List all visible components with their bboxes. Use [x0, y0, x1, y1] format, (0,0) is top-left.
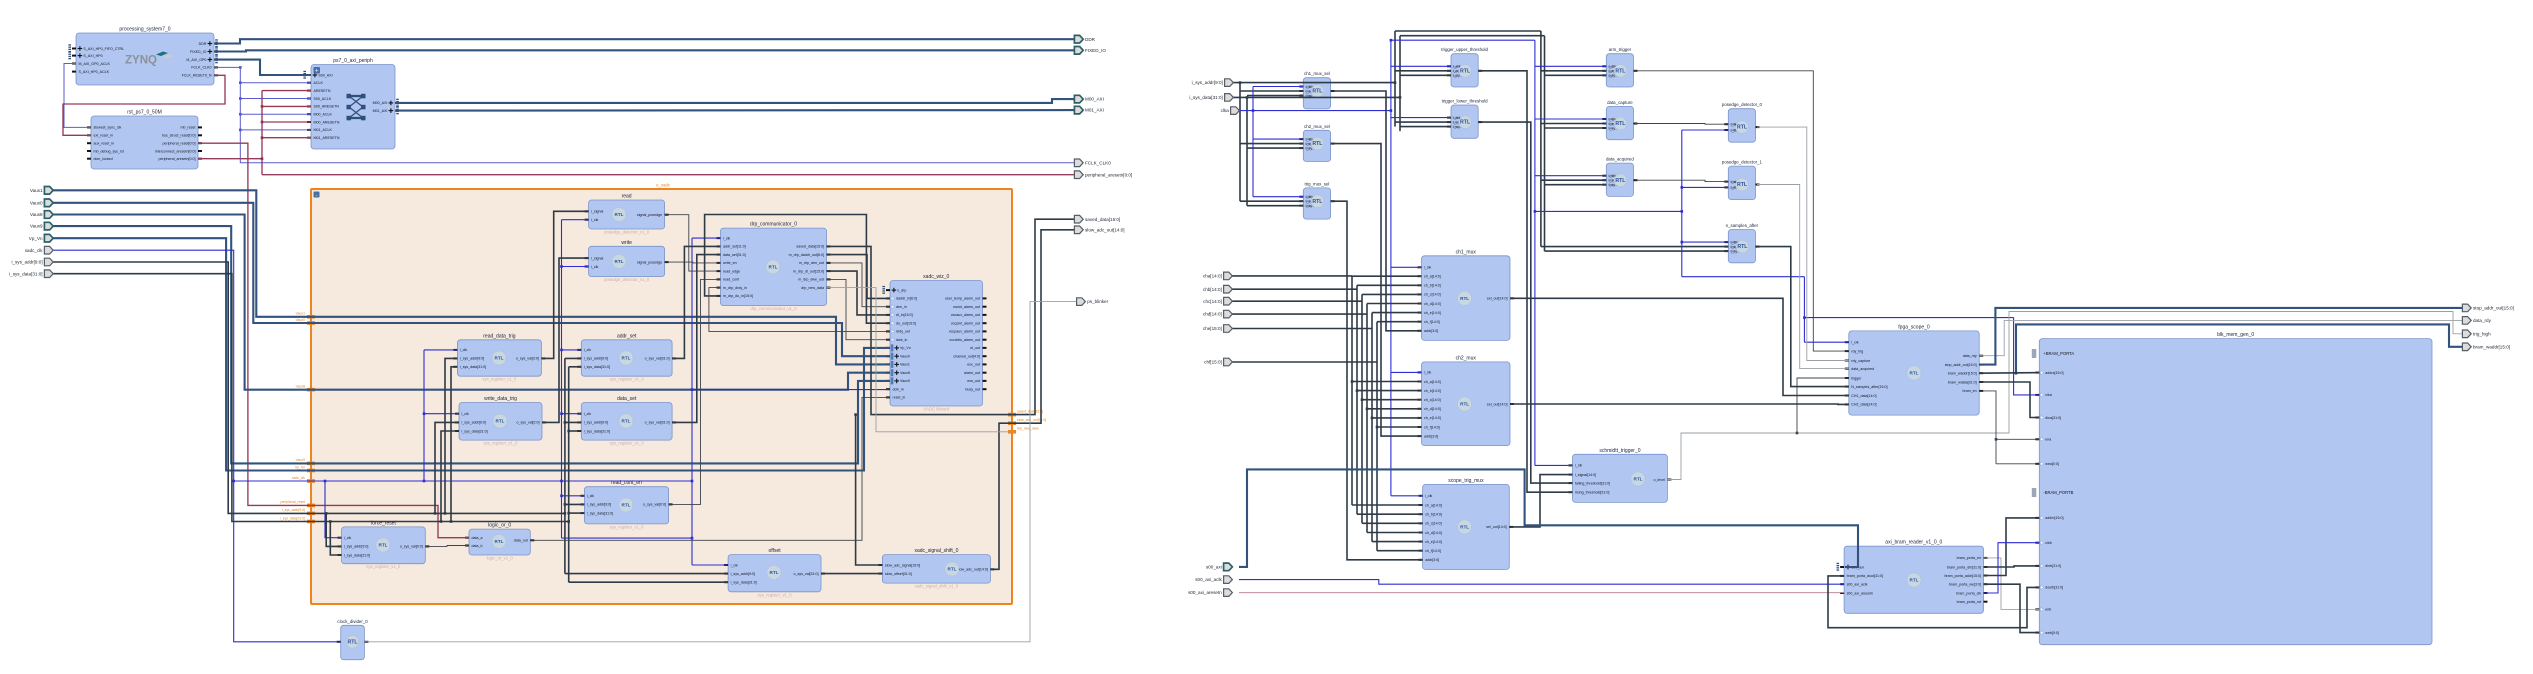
hierarchy group o_xadc — [311, 183, 1012, 605]
svg-text:addr_set: addr_set — [617, 333, 637, 339]
svg-text:ena: ena — [2045, 438, 2051, 442]
svg-text:trig_mux_sel: trig_mux_sel — [1305, 181, 1330, 186]
external port ps_blinker — [1077, 298, 1109, 306]
svg-text:data_b: data_b — [472, 544, 483, 548]
svg-text:peripheral_aresetn[0:0]: peripheral_aresetn[0:0] — [1085, 172, 1132, 177]
svg-text:data_set[31:0]: data_set[31:0] — [723, 253, 746, 257]
svg-text:i_clk: i_clk — [1730, 240, 1736, 244]
block rst_ps7_0_50M — [87, 110, 202, 170]
wire cha vert — [1351, 276, 1353, 505]
svg-text:RTL: RTL — [615, 259, 624, 264]
wire tut out — [1478, 71, 1572, 492]
svg-text:RTL: RTL — [1460, 525, 1469, 530]
svg-text:M00_AXI: M00_AXI — [1085, 97, 1104, 102]
svg-text:schmidtt_trigger_0: schmidtt_trigger_0 — [1599, 448, 1640, 454]
block read_data_trig — [453, 333, 545, 381]
wire offset to shift — [821, 573, 882, 575]
wire clka fpga — [1804, 341, 1848, 343]
wire clk rdt — [424, 349, 457, 351]
svg-text:xadc_signal_shift_0: xadc_signal_shift_0 — [914, 548, 958, 554]
svg-text:ch_c[14:0]: ch_c[14:0] — [1424, 398, 1441, 402]
svg-text:ext_reset_in: ext_reset_in — [94, 134, 114, 138]
wire clk reg vert561 — [561, 220, 563, 538]
svg-text:+BRAM_PORTA: +BRAM_PORTA — [2043, 351, 2074, 356]
wire clk data_set — [562, 413, 582, 415]
svg-text:dcm_locked: dcm_locked — [94, 157, 113, 161]
wire saved to shift — [856, 415, 883, 565]
block data_capture — [1602, 100, 1637, 140]
svg-text:CH2_data[14:0]: CH2_data[14:0] — [1851, 403, 1876, 407]
svg-text:ch1_mux_sel: ch1_mux_sel — [1304, 71, 1330, 76]
svg-text:busy_out: busy_out — [965, 388, 980, 392]
svg-text:RTL: RTL — [948, 567, 957, 572]
svg-text:FCLK_CLK0: FCLK_CLK0 — [191, 66, 211, 70]
wire clk row538 — [562, 537, 693, 539]
svg-text:signal_posedge: signal_posedge — [637, 213, 662, 217]
svg-text:i_clk: i_clk — [587, 494, 595, 498]
svg-text:enb: enb — [2045, 608, 2051, 612]
wire fpga wdata — [1979, 382, 2039, 418]
svg-text:reset_in: reset_in — [893, 396, 906, 400]
svg-text:bram_en: bram_en — [1963, 389, 1977, 393]
svg-text:RTL: RTL — [622, 419, 631, 424]
svg-text:stop_addr_out[15:0]: stop_addr_out[15:0] — [2473, 306, 2514, 311]
svg-text:i_sig..: i_sig.. — [1730, 122, 1737, 126]
svg-text:ch_c[14:0]: ch_c[14:0] — [1424, 293, 1441, 297]
external port saved_data[15:0] — [1074, 215, 1120, 223]
wire M_AXI_GP0 to S00_AXI — [214, 60, 311, 75]
svg-text:addra[15:0]: addra[15:0] — [2045, 371, 2063, 375]
svg-text:RTL: RTL — [1910, 578, 1919, 583]
svg-text:den_in: den_in — [896, 305, 907, 309]
svg-text:rdy_capture: rdy_capture — [1851, 359, 1870, 363]
external port Vp_Vn — [29, 234, 53, 242]
svg-text:eos_out: eos_out — [967, 379, 980, 383]
wire pd1 out — [1757, 185, 1849, 369]
block xadc_wiz_0 — [882, 274, 986, 412]
svg-text:RTL: RTL — [615, 212, 624, 217]
wire Vaux9 — [52, 226, 890, 463]
svg-text:i_sy..: i_sy.. — [1730, 245, 1737, 249]
svg-text:i_sy..: i_sy.. — [1305, 146, 1312, 150]
wire periph_aresetn vert2 — [261, 159, 263, 175]
svg-text:clock_divider_0: clock_divider_0 — [337, 619, 368, 624]
wire che vert — [1371, 313, 1373, 542]
wire r addr vert1395 — [1394, 31, 1396, 127]
external port trig_high — [2462, 330, 2491, 338]
block write — [585, 240, 669, 282]
svg-text:M_AXI_GP0: M_AXI_GP0 — [186, 58, 206, 62]
block arm_trigger — [1602, 47, 1637, 87]
block clock_divider_0 — [337, 619, 369, 660]
svg-text:di_in[15:0]: di_in[15:0] — [896, 313, 913, 317]
svg-text:i_sys_addr[9:0]: i_sys_addr[9:0] — [1192, 80, 1223, 85]
svg-text:M01_AXI: M01_AXI — [1085, 108, 1104, 113]
wire drp di — [827, 271, 890, 315]
svg-text:i_sys_data[31:0]: i_sys_data[31:0] — [280, 516, 305, 520]
wire xadc_clk entry — [52, 250, 692, 481]
block ch2_mux_sel — [1299, 124, 1334, 162]
svg-text:dina[31:0]: dina[31:0] — [2045, 416, 2061, 420]
svg-text:o_sys_val[31:0]: o_sys_val[31:0] — [645, 421, 670, 425]
wire s00_axi_aclk — [1239, 580, 1844, 585]
svg-text:RTL: RTL — [1460, 120, 1471, 126]
svg-text:ARESETN: ARESETN — [314, 89, 331, 93]
wire clka cap — [1535, 118, 1606, 120]
svg-text:i_sy..: i_sy.. — [1452, 73, 1459, 77]
wire che ch2 — [1372, 417, 1422, 419]
wire clka main — [1239, 110, 1391, 112]
svg-text:trigger: trigger — [1851, 376, 1862, 380]
wire chf port — [1232, 361, 1377, 363]
wire chc ch2 — [1362, 399, 1422, 401]
svg-text:o_sys_val[3:0]: o_sys_val[3:0] — [516, 357, 539, 361]
svg-text:do_out[15:0]: do_out[15:0] — [896, 322, 916, 326]
wire clka arm — [1535, 65, 1606, 67]
svg-text:i_clk: i_clk — [460, 348, 468, 352]
wire clk reg vert424 — [423, 350, 425, 481]
wire chd scope — [1367, 532, 1423, 534]
wire ch2 sel_out — [1510, 403, 1849, 405]
wire clka ch1sel — [1253, 86, 1303, 88]
svg-text:i_sy..: i_sy.. — [1305, 89, 1312, 93]
wire saved_data ext — [1012, 219, 1074, 414]
svg-text:i_clk: i_clk — [1608, 117, 1614, 121]
wire r data vert1247 — [1246, 97, 1248, 205]
svg-text:ch_a[14:0]: ch_a[14:0] — [1425, 503, 1442, 507]
svg-text:wea[0:0]: wea[0:0] — [2045, 462, 2059, 466]
svg-text:axi_bram_reader_v1_0_0: axi_bram_reader_v1_0_0 — [1885, 540, 1942, 546]
svg-text:CH1_data[14:0]: CH1_data[14:0] — [1851, 394, 1876, 398]
svg-text:dwe_in: dwe_in — [896, 338, 907, 342]
svg-text:saved_data[15:0]: saved_data[15:0] — [796, 245, 824, 249]
svg-text:drp_communicator_v1_0: drp_communicator_v1_0 — [750, 306, 797, 311]
svg-text:drp_new_data: drp_new_data — [1017, 427, 1039, 431]
wire periph_aresetn to port — [262, 174, 1074, 176]
wire periph_reset to logic_or — [198, 143, 469, 538]
svg-text:addr[3:0]: addr[3:0] — [1425, 558, 1439, 562]
wire clka ch2sel — [1253, 138, 1303, 140]
svg-text:Vaux1: Vaux1 — [296, 312, 305, 316]
svg-text:addr_set[11:0]: addr_set[11:0] — [723, 245, 746, 249]
svg-text:bus_struct_reset[0:0]: bus_struct_reset[0:0] — [162, 134, 196, 138]
svg-text:peripheral_reset[0:0]: peripheral_reset[0:0] — [163, 142, 196, 146]
wire r data cap — [1545, 127, 1607, 129]
wire cha ch1 — [1352, 275, 1422, 277]
svg-text:ch_d[14:0]: ch_d[14:0] — [1424, 302, 1441, 306]
svg-text:i_clk: i_clk — [591, 218, 599, 222]
svg-text:i_sys_data[31:0]: i_sys_data[31:0] — [9, 271, 42, 276]
svg-text:RTL: RTL — [622, 503, 631, 508]
wire addr drop force — [326, 513, 341, 546]
svg-text:o_xadc: o_xadc — [656, 183, 671, 188]
wire r data arm — [1545, 74, 1607, 76]
svg-text:che[15:0]: che[15:0] — [1203, 326, 1222, 331]
svg-text:Vaux9: Vaux9 — [900, 379, 910, 383]
wire M00_AXI — [395, 99, 1074, 103]
wire data drop rdt — [451, 367, 457, 522]
wire reader clk to clkb — [1984, 543, 2040, 593]
wire clka tlt — [1391, 117, 1451, 119]
svg-text:i_sys_addr[9:0]: i_sys_addr[9:0] — [460, 357, 485, 361]
svg-text:i_sys_addr[9:0]: i_sys_addr[9:0] — [461, 421, 486, 425]
svg-text:RTL: RTL — [1910, 371, 1919, 376]
svg-text:o_sys_val[2:0]: o_sys_val[2:0] — [517, 421, 540, 425]
svg-text:RTL: RTL — [347, 639, 358, 645]
svg-text:RTL: RTL — [1460, 402, 1469, 407]
external port Vaux9 — [30, 222, 53, 230]
svg-text:S00_AXI: S00_AXI — [318, 73, 332, 77]
wire r data vert1400 — [1399, 36, 1401, 131]
wire logic_or to xadc reset — [530, 397, 890, 540]
svg-text:arm_trigger: arm_trigger — [1609, 47, 1632, 52]
svg-text:daddr_in[6:0]: daddr_in[6:0] — [896, 297, 917, 301]
svg-text:mb_debug_sys_rst: mb_debug_sys_rst — [94, 149, 124, 153]
wire chd port — [1232, 313, 1367, 315]
wire ch1 sel_out — [1510, 298, 1849, 395]
svg-text:cha[14:0]: cha[14:0] — [1203, 274, 1222, 279]
svg-text:M_AXI_GP0_ACLK: M_AXI_GP0_ACLK — [79, 62, 111, 66]
svg-text:chb[14:0]: chb[14:0] — [1203, 287, 1222, 292]
wire periph_aresetn vert — [198, 91, 262, 159]
block logic_or_0 — [465, 523, 534, 561]
external port FCLK_CLK0 — [1074, 159, 1111, 167]
svg-text:bram_porta_rst: bram_porta_rst — [1957, 600, 1981, 604]
external port s00_axi_aresetn — [1188, 589, 1232, 597]
wire acq out — [1635, 180, 1728, 181]
external port i_sys_addr[9:0] — [1192, 79, 1234, 87]
wire r addr acq — [1541, 179, 1606, 181]
wire r data vert1546 — [1544, 36, 1546, 251]
wire FCLK to rst clk — [64, 64, 91, 128]
svg-text:FIXED_IO: FIXED_IO — [1085, 48, 1106, 53]
wire data_set to drp — [672, 255, 720, 423]
svg-text:read_data_trig: read_data_trig — [483, 333, 515, 339]
svg-text:RTL: RTL — [769, 265, 778, 270]
svg-text:sel_out[14:0]: sel_out[14:0] — [1487, 402, 1508, 406]
block posedge_detector_0 — [1722, 102, 1763, 142]
wire drp dwe — [827, 279, 890, 339]
svg-text:read: read — [622, 194, 632, 200]
svg-text:bram_porta_dout[31:0]: bram_porta_dout[31:0] — [1847, 574, 1883, 578]
svg-text:ch_c[14:0]: ch_c[14:0] — [1425, 522, 1442, 526]
wire shift out — [990, 423, 1012, 569]
wire addr_set to drp — [672, 246, 720, 358]
external port Vaux0 — [30, 199, 53, 207]
wire chf ch1 — [1377, 321, 1422, 323]
wire FCLK ACLK stub3 — [240, 113, 311, 115]
svg-text:i_sys_data[31:0]: i_sys_data[31:0] — [1189, 95, 1222, 100]
wire s00_axi bus — [1239, 469, 1858, 567]
svg-text:Vaux8: Vaux8 — [296, 385, 305, 389]
wire chc ch1 — [1362, 293, 1422, 295]
wire clka ch2mux — [1391, 371, 1422, 373]
svg-text:i_sy..: i_sy.. — [1305, 204, 1312, 208]
svg-text:data_acquired: data_acquired — [1606, 157, 1634, 162]
wire pd0 out — [1757, 127, 1849, 360]
wire aresetn stub1 — [262, 90, 311, 92]
svg-text:Vaux9: Vaux9 — [296, 458, 305, 462]
svg-text:i_sy..: i_sy.. — [1452, 120, 1459, 124]
svg-text:M00_ACLK: M00_ACLK — [314, 113, 333, 117]
svg-text:slow_adc_out[14:0]: slow_adc_out[14:0] — [957, 568, 988, 572]
block blk_mem_gen_0 — [2032, 332, 2432, 645]
svg-text:slow_adc_out[14:0]: slow_adc_out[14:0] — [1085, 227, 1125, 232]
svg-text:ch_f[14:0]: ch_f[14:0] — [1424, 425, 1440, 429]
wire junction dots — [232, 39, 2017, 539]
block scope_trig_mux — [1419, 478, 1514, 570]
svg-text:drp_new_data: drp_new_data — [801, 286, 824, 290]
svg-text:o_level: o_level — [1654, 478, 1666, 482]
svg-text:RTL: RTL — [1634, 477, 1643, 482]
wire reader din to dinb — [1984, 566, 2040, 567]
svg-text:ch_b[14:0]: ch_b[14:0] — [1424, 389, 1441, 393]
svg-text:drp_communicator_0: drp_communicator_0 — [750, 222, 797, 228]
svg-text:slow_offset[31:0]: slow_offset[31:0] — [885, 572, 912, 576]
svg-text:ch_b[14:0]: ch_b[14:0] — [1425, 513, 1442, 517]
wire fpga waddr — [1979, 372, 2039, 375]
svg-text:o_sys_val[0:0]: o_sys_val[0:0] — [643, 503, 666, 507]
external port Vaux8 — [30, 211, 53, 219]
svg-text:sys_register_v1_0: sys_register_v1_0 — [366, 564, 401, 569]
small register block inner pin labels — [1305, 64, 1737, 253]
svg-text:eoc_out: eoc_out — [967, 363, 980, 367]
wire reader en to enb — [1984, 558, 2040, 610]
wire M01_AXI — [395, 109, 1074, 112]
wire r data tlt — [1400, 126, 1451, 128]
svg-text:s00_axi_aclk: s00_axi_aclk — [1195, 577, 1222, 582]
svg-text:i_sy..: i_sy.. — [1452, 69, 1459, 73]
svg-text:saved_data[15:0]: saved_data[15:0] — [1085, 217, 1120, 222]
external port chf[15:0] — [1204, 358, 1232, 366]
svg-text:signal_posedge: signal_posedge — [637, 260, 662, 264]
wire Vp_Vn — [52, 238, 890, 470]
svg-text:ZYNQ: ZYNQ — [125, 55, 157, 67]
wire clk wdt — [424, 413, 459, 415]
svg-text:vccpaux_alarm_out: vccpaux_alarm_out — [949, 330, 980, 334]
svg-text:chf[15:0]: chf[15:0] — [1204, 360, 1222, 365]
svg-text:trigger_lower_threshold: trigger_lower_threshold — [1442, 99, 1488, 104]
wire xadc drdy to drp — [709, 288, 890, 332]
svg-text:M01_ACLK: M01_ACLK — [314, 128, 333, 132]
svg-text:i_sys_data[31:0]: i_sys_data[31:0] — [344, 553, 370, 557]
svg-text:ch_f[14:0]: ch_f[14:0] — [1424, 320, 1440, 324]
svg-text:i_sy..: i_sy.. — [1608, 69, 1615, 73]
svg-text:S00_ACLK: S00_ACLK — [314, 97, 332, 101]
svg-text:clka: clka — [1221, 108, 1230, 113]
block trigger_lower_threshold — [1442, 99, 1488, 139]
svg-text:blk_mem_gen_0: blk_mem_gen_0 — [2217, 332, 2254, 338]
wire FCLK_CLK0 to port — [240, 67, 1074, 162]
wire read_cont to drp — [669, 279, 721, 504]
block read_cont_en — [580, 480, 672, 529]
svg-text:sys_register_v1_0: sys_register_v1_0 — [610, 524, 645, 529]
svg-text:FIXED_IO: FIXED_IO — [190, 50, 207, 54]
block read — [585, 194, 669, 235]
svg-text:Vaux8: Vaux8 — [30, 212, 43, 217]
svg-text:i_sy..: i_sy.. — [1608, 126, 1615, 130]
external port cha[14:0] — [1203, 272, 1233, 280]
svg-text:Vaux9: Vaux9 — [30, 224, 43, 229]
svg-text:processing_system7_0: processing_system7_0 — [119, 27, 170, 33]
wire bram wea — [1996, 463, 2039, 465]
wire Vaux8 — [52, 215, 890, 390]
external port clka — [1221, 107, 1240, 115]
svg-text:addrb[15:0]: addrb[15:0] — [2045, 516, 2063, 520]
svg-text:ch_a[14:0]: ch_a[14:0] — [1424, 380, 1441, 384]
wire divider to ps_blinker — [364, 302, 1076, 642]
svg-text:FCLK_CLK0: FCLK_CLK0 — [1085, 160, 1111, 165]
svg-text:i_sy..: i_sy.. — [1305, 199, 1312, 203]
wire chb port — [1232, 288, 1357, 290]
svg-text:Vp_Vn: Vp_Vn — [295, 465, 305, 469]
external port slow_adc_out[14:0] — [1074, 226, 1124, 234]
svg-text:peripheral_aresetn[0:0]: peripheral_aresetn[0:0] — [159, 157, 196, 161]
block schmidtt_trigger_0 — [1569, 448, 1672, 503]
svg-text:S_AXI_HP0_FIFO_CTRL: S_AXI_HP0_FIFO_CTRL — [83, 47, 124, 51]
block posedge_detector_1 — [1722, 160, 1763, 200]
svg-text:Vaux1: Vaux1 — [30, 188, 43, 193]
svg-text:aux_reset_in: aux_reset_in — [94, 142, 115, 146]
wire clka nsamp — [1682, 241, 1729, 243]
wire chc port — [1232, 300, 1362, 302]
svg-text:RTL: RTL — [1460, 68, 1471, 74]
wire arm out — [1634, 71, 1849, 351]
external port i_sys_data[31:0] — [9, 270, 53, 278]
svg-text:trig_high: trig_high — [2473, 331, 2491, 336]
wire read to drp read_edge — [665, 215, 721, 271]
svg-text:i_clk: i_clk — [1730, 185, 1736, 189]
svg-text:i_clk: i_clk — [1452, 64, 1458, 68]
wire tlt out — [1478, 122, 1572, 483]
wire xadc_clk to offset — [692, 564, 728, 566]
wire addr br offset — [565, 573, 728, 575]
wire i_sys_addr bus — [52, 262, 565, 513]
external port Vaux1 — [30, 187, 53, 195]
wire clk read_cont — [562, 495, 585, 497]
wire r addr arm — [1541, 70, 1606, 72]
wire clka vert1535 — [1534, 40, 1536, 465]
svg-text:m_drp_daddr_out[6:0]: m_drp_daddr_out[6:0] — [789, 253, 824, 257]
svg-text:s00_axi_aclk: s00_axi_aclk — [1847, 583, 1868, 587]
svg-text:i_sy..: i_sy.. — [1608, 73, 1615, 77]
svg-text:data_a: data_a — [472, 536, 483, 540]
external port chb[14:0] — [1203, 285, 1233, 293]
wire cap out — [1635, 123, 1728, 126]
svg-text:read_edge: read_edge — [723, 269, 740, 273]
svg-text:i_sys_data[31:0]: i_sys_data[31:0] — [584, 365, 610, 369]
block data_acquired — [1602, 157, 1637, 197]
wire r addr cap — [1541, 123, 1606, 125]
external port M01_AXI — [1074, 106, 1104, 114]
svg-text:ch_a[14:0]: ch_a[14:0] — [1424, 275, 1441, 279]
wire FCLK ACLK stub1 — [240, 82, 311, 84]
svg-text:web[0:0]: web[0:0] — [2045, 631, 2059, 635]
wire fpga data_rdy — [1979, 320, 2462, 355]
external port s00_axi — [1206, 563, 1232, 571]
svg-text:xadc_clk: xadc_clk — [292, 476, 305, 480]
svg-text:bram_porta_we[3:0]: bram_porta_we[3:0] — [1949, 583, 1981, 587]
external port chd[14:0] — [1203, 310, 1233, 318]
svg-text:RTL: RTL — [1312, 89, 1323, 95]
wire drp den — [827, 263, 890, 307]
wire clka ch1mux — [1391, 266, 1422, 268]
svg-text:M01_AXI: M01_AXI — [373, 109, 388, 113]
wire clka vert1390 — [1390, 40, 1392, 496]
external port bram_waddr[15:0] — [2462, 343, 2510, 351]
svg-text:bram_wdata[31:0]: bram_wdata[31:0] — [1948, 380, 1977, 384]
svg-text:rising_threshold[31:0]: rising_threshold[31:0] — [1575, 491, 1609, 495]
